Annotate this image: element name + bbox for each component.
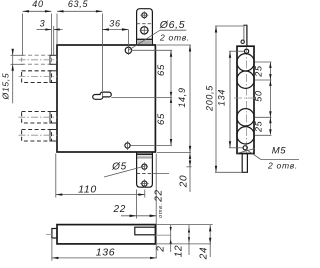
svg-text:3: 3 [40, 19, 46, 29]
svg-text:22: 22 [113, 204, 127, 215]
svg-text:2 отв.: 2 отв. [267, 161, 298, 171]
svg-text:134: 134 [217, 89, 227, 106]
svg-text:25: 25 [254, 65, 264, 78]
svg-text:20: 20 [178, 175, 189, 189]
svg-text:63,5: 63,5 [68, 0, 89, 9]
svg-text:50: 50 [254, 90, 264, 101]
svg-text:14,9: 14,9 [177, 87, 187, 107]
svg-text:Ø5: Ø5 [111, 162, 127, 173]
svg-text:24: 24 [199, 247, 210, 261]
svg-text:136: 136 [96, 247, 116, 259]
svg-text:65: 65 [156, 64, 167, 76]
svg-text:Ø6,5: Ø6,5 [159, 19, 186, 31]
svg-text:2 отв.: 2 отв. [159, 33, 190, 43]
svg-text:12: 12 [174, 245, 185, 258]
svg-text:M5: M5 [272, 146, 287, 157]
svg-text:Ø15,5: Ø15,5 [1, 73, 11, 101]
svg-text:25: 25 [254, 120, 264, 133]
svg-text:22: 22 [154, 189, 165, 203]
svg-text:36: 36 [109, 19, 120, 29]
svg-text:отв.: отв. [158, 203, 164, 218]
svg-text:65: 65 [156, 113, 167, 125]
svg-text:200,5: 200,5 [205, 85, 215, 112]
svg-text:110: 110 [78, 184, 97, 196]
svg-text:2: 2 [156, 245, 167, 252]
svg-text:40: 40 [32, 0, 43, 9]
